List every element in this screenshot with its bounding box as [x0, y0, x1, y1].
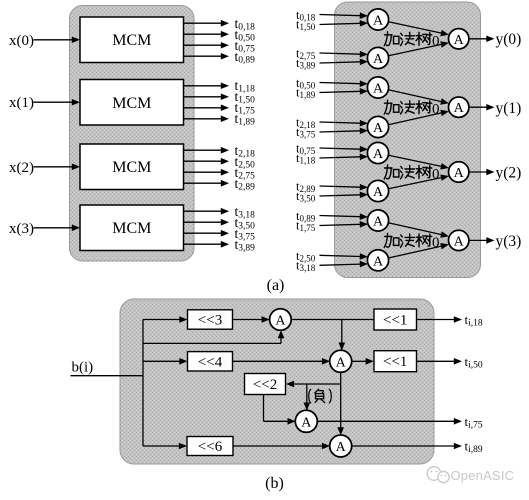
wire: branch left to <<2 input — [293, 383, 341, 385]
wire: t3,89 output arrow — [184, 243, 222, 245]
svg-text:y(2): y(2) — [496, 165, 522, 182]
wire: A2 to <<1 (lower) — [352, 360, 367, 362]
wire: adder A3b to A3c — [388, 246, 442, 258]
wire: adder A1b to A1c — [388, 113, 442, 125]
svg-text:<<3: <<3 — [198, 313, 222, 329]
wire: adder A0b to A0c — [388, 44, 442, 56]
wire: t1,75 output arrow — [184, 107, 222, 109]
adder A3b (first level, tree 3) — [367, 250, 388, 271]
wire: t1,18 into adder A2a — [320, 157, 361, 158]
block shifter <<4 — [188, 352, 233, 371]
wire: bus to <<3 — [143, 319, 180, 321]
block shifter <<1 lower — [374, 351, 417, 372]
svg-text:A: A — [373, 82, 384, 97]
wire: t0,50 into adder A1a — [320, 83, 361, 84]
wire: t3,50 into adder A2b — [320, 195, 361, 196]
adder A2a (first level, tree 2) — [367, 142, 388, 163]
wire: t2,89 into adder A2b — [320, 186, 361, 187]
wire: t2,50 into adder A3b — [320, 255, 361, 256]
adder A3c (second level, tree 3) — [449, 230, 469, 250]
adder A2 (<<4 + previous) — [330, 350, 352, 372]
wire: t0,89 output arrow — [184, 55, 222, 57]
svg-text:A: A — [454, 101, 465, 116]
wire: <<1 lower to t_i,50 output — [417, 360, 455, 362]
svg-text:A: A — [454, 234, 465, 249]
wire: negated branch down into A3 top — [306, 384, 308, 404]
svg-text:A: A — [373, 147, 384, 162]
wire: adder A2b to A2c — [388, 178, 442, 189]
wire: A1 to <<1 (upper) with junction — [291, 319, 374, 321]
wire: <<2 output down then right into A3 — [263, 395, 265, 422]
wire: <<1 upper to t_i,18 output — [417, 319, 455, 321]
wire: t2,18 into adder A1b — [320, 122, 361, 123]
wire: adder A2a to A2c — [388, 155, 442, 166]
wire: t1,18 output arrow — [184, 85, 222, 87]
adder A1c (second level, tree 1) — [449, 97, 469, 117]
svg-text:<<4: <<4 — [198, 354, 223, 370]
svg-text:MCM: MCM — [112, 32, 151, 49]
wire: t2,18 output arrow — [184, 149, 222, 151]
svg-text:x(0): x(0) — [9, 33, 34, 49]
wire: y(2) output arrow — [469, 171, 487, 173]
wire: t3,89 into adder A0b — [320, 62, 361, 63]
svg-text:OpenASIC: OpenASIC — [451, 468, 515, 483]
wire: adder A3a to A3c — [388, 223, 442, 235]
wire: t0,18 into adder A0a — [320, 15, 361, 16]
block MCM 3 — [80, 205, 184, 251]
wire: t2,75 output arrow — [184, 171, 222, 173]
svg-text:A: A — [454, 33, 465, 48]
svg-text:A: A — [336, 440, 347, 455]
wire: t3,18 into adder A3b — [320, 264, 361, 265]
wire: y(0) output arrow — [469, 38, 487, 40]
wire: t3,75 into adder A1b — [320, 131, 361, 132]
adder A1b (first level, tree 1) — [367, 116, 388, 137]
wire: y(1) output arrow — [469, 106, 487, 108]
wire: t2,75 into adder A0b — [320, 53, 361, 54]
svg-text:<<1: <<1 — [383, 354, 407, 370]
adder A3 (t_i,75) — [295, 410, 317, 432]
adder A3a (first level, tree 3) — [367, 210, 388, 231]
svg-text:A: A — [373, 14, 384, 29]
adder A0b (first level, tree 0) — [367, 47, 388, 68]
block MCM 2 — [80, 144, 184, 190]
svg-text:A: A — [373, 52, 384, 67]
svg-text:y(1): y(1) — [496, 100, 522, 117]
block container: adder tree bank (part a right) — [335, 2, 481, 278]
svg-text:A: A — [373, 215, 384, 230]
block shifter <<6 — [187, 437, 233, 456]
block shifter <<2 — [245, 374, 286, 395]
wire: x(3) input arrow — [34, 227, 73, 229]
block shifter <<3 — [188, 310, 233, 329]
adder A2b (first level, tree 2) — [367, 180, 388, 201]
svg-text:x(2): x(2) — [9, 160, 34, 176]
wire: A4 to t_i,89 output — [352, 445, 455, 447]
svg-text:y(0): y(0) — [496, 31, 522, 48]
wire: A2 bottom down to A4 top — [340, 372, 342, 428]
adder A1a (first level, tree 1) — [367, 77, 388, 98]
svg-text:b(i): b(i) — [72, 360, 94, 376]
svg-text:MCM: MCM — [112, 159, 151, 176]
wire: t0,75 into adder A2a — [320, 148, 361, 149]
svg-text:<<6: <<6 — [198, 439, 223, 455]
wire: t0,89 into adder A3a — [320, 216, 361, 217]
wire: A3 to t_i,75 output — [317, 420, 455, 422]
svg-text:<<1: <<1 — [383, 313, 407, 329]
wire: x(2) input arrow — [34, 166, 73, 168]
wire: t0,18 output arrow — [184, 22, 222, 24]
wire: t3,18 output arrow — [184, 210, 222, 212]
svg-text:(a): (a) — [267, 277, 285, 294]
wire: y(3) output arrow — [469, 239, 487, 241]
block container: MCM internal structure (part b) — [120, 299, 434, 464]
wire: t2,89 output arrow — [184, 182, 222, 184]
svg-text:x(1): x(1) — [9, 95, 34, 111]
svg-text:A: A — [301, 415, 312, 430]
svg-text:MCM: MCM — [112, 220, 151, 237]
adder A0a (first level, tree 0) — [367, 9, 388, 30]
wire: junction drop from A1 output into A2 top — [341, 320, 343, 344]
label 加法树0 (adder tree 2) — [384, 165, 439, 183]
wire: t0,75 output arrow — [184, 44, 222, 46]
block container: MCM bank (part a left) — [70, 6, 195, 262]
wire: t1,50 output arrow — [184, 96, 222, 98]
wire: <<6 to adder A4 — [233, 445, 323, 447]
watermark OpenASIC logo — [427, 467, 449, 483]
svg-text:A: A — [336, 355, 347, 370]
wire: b(i) vertical bus — [142, 320, 144, 447]
svg-text:A: A — [373, 254, 384, 269]
wire: t2,50 output arrow — [184, 160, 222, 162]
wire: t0,50 output arrow — [184, 33, 222, 35]
wire: adder A1a to A1c — [388, 90, 442, 102]
svg-text:<<2: <<2 — [253, 377, 277, 393]
adder A0c (second level, tree 0) — [449, 29, 469, 49]
label 加法树0 (adder tree 0) — [384, 32, 439, 50]
svg-text:y(3): y(3) — [496, 233, 522, 250]
svg-text:A: A — [373, 185, 384, 200]
wire: b(i) input line — [71, 375, 144, 377]
wire: <<4 to adder A2 — [233, 360, 323, 362]
wire: t1,75 into adder A3a — [320, 224, 361, 225]
label 加法树0 (adder tree 1) — [384, 100, 439, 118]
wire: adder A0a to A0c — [388, 22, 442, 34]
wire: x(1) input arrow — [34, 101, 73, 103]
wire: bus to <<6 — [143, 445, 180, 447]
adder A1 (<<3 + b) — [270, 309, 292, 331]
label 加法树0 (adder tree 3) — [384, 233, 439, 251]
wire: bus to <<4 — [143, 360, 180, 362]
svg-text:A: A — [373, 121, 384, 136]
wire: <<3 to adder A1 — [233, 319, 263, 321]
wire: t1,89 output arrow — [184, 118, 222, 120]
block shifter <<1 upper — [374, 309, 417, 330]
svg-text:(b): (b) — [265, 475, 284, 492]
wire: t1,89 into adder A1a — [320, 91, 361, 92]
wire: t3,75 output arrow — [184, 232, 222, 234]
block MCM 1 — [80, 80, 184, 126]
adder A4 (t_i,89) — [330, 435, 352, 457]
svg-text:A: A — [275, 314, 286, 329]
block MCM 0 — [80, 17, 184, 63]
svg-text:x(3): x(3) — [9, 221, 34, 237]
wire: t3,50 output arrow — [184, 221, 222, 223]
svg-text:MCM: MCM — [112, 95, 151, 112]
wire: bus +1 branch (horizontal then up into A1 bottom) — [143, 342, 281, 344]
adder A2c (second level, tree 2) — [449, 162, 469, 182]
wire: x(0) input arrow — [34, 39, 73, 41]
svg-text:A: A — [454, 166, 465, 181]
label (负) negate — [309, 389, 332, 403]
wire: t1,50 into adder A0a — [320, 23, 361, 24]
